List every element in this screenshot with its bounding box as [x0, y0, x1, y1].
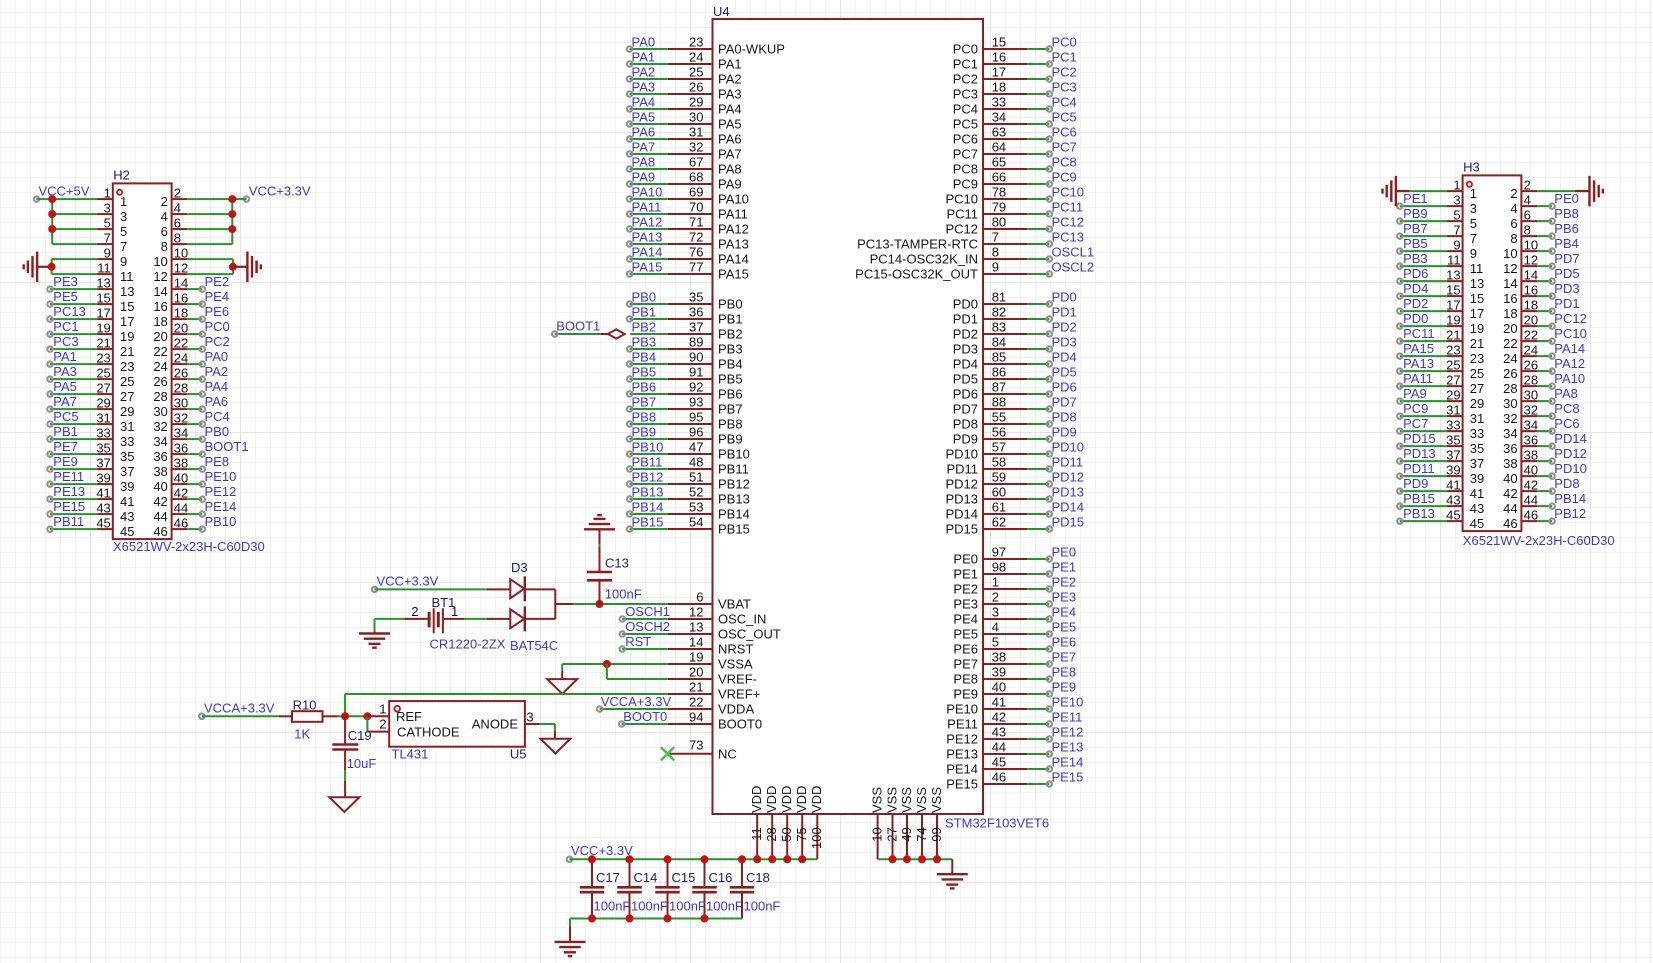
- svg-text:24: 24: [1503, 351, 1517, 366]
- svg-text:37: 37: [120, 464, 134, 479]
- svg-text:37: 37: [689, 319, 703, 334]
- svg-text:35: 35: [96, 440, 110, 455]
- svg-text:39: 39: [120, 479, 134, 494]
- svg-text:80: 80: [992, 214, 1006, 229]
- net flag VCC+3.3V at decoupling rail: [567, 843, 633, 862]
- svg-text:PB8: PB8: [632, 409, 657, 424]
- wire H3 pin 38 to net label PD12: [1537, 446, 1587, 464]
- svg-text:VREF-: VREF-: [718, 672, 757, 687]
- H3 pin 3 stub and numbers: [1447, 192, 1477, 216]
- svg-text:C16: C16: [709, 870, 733, 885]
- svg-text:PB13: PB13: [718, 492, 750, 507]
- wire H3 pin 36 to net label PD14: [1537, 431, 1587, 449]
- svg-text:39: 39: [992, 664, 1006, 679]
- svg-text:PD11: PD11: [1052, 454, 1084, 469]
- svg-text:PE7: PE7: [953, 657, 978, 672]
- svg-text:PE6: PE6: [1052, 634, 1077, 649]
- U4 pin 30 PA5, wire and net label PA5: [627, 109, 742, 131]
- svg-text:12: 12: [1524, 252, 1538, 267]
- U4 pin 67 PA8, wire and net label PA8: [627, 154, 742, 176]
- svg-text:21: 21: [1470, 336, 1484, 351]
- svg-text:68: 68: [689, 169, 703, 184]
- wire R10 to node: [338, 694, 367, 716]
- svg-text:PE2: PE2: [953, 582, 978, 597]
- U4 pin 8 PC14-OSC32K_IN, wire and net label OSCL1: [870, 244, 1095, 266]
- svg-text:28: 28: [174, 380, 188, 395]
- svg-text:34: 34: [992, 109, 1006, 124]
- svg-text:21: 21: [689, 679, 703, 694]
- svg-text:40: 40: [1503, 471, 1517, 486]
- svg-text:14: 14: [1524, 267, 1538, 282]
- H3 pin 35 stub and numbers: [1446, 432, 1484, 456]
- svg-text:PE14: PE14: [946, 762, 978, 777]
- wire H2 pin 31 to net label PC5: [47, 409, 97, 427]
- H2 pin 29 stub and numbers: [96, 395, 134, 419]
- wire H3 pin2 to ground: [1537, 190, 1589, 192]
- svg-text:96: 96: [689, 424, 703, 439]
- ground (earth) at BT1: [359, 634, 390, 648]
- svg-text:12: 12: [174, 260, 188, 275]
- svg-text:REF: REF: [396, 709, 422, 724]
- U4 pin 25 PA2, wire and net label PA2: [627, 64, 742, 86]
- svg-text:79: 79: [992, 199, 1006, 214]
- svg-text:17: 17: [1446, 297, 1460, 312]
- H2 pin 31 stub and numbers: [96, 410, 134, 434]
- U4 pin 12 OSC_IN, wire and net label OSCH1: [620, 604, 767, 627]
- svg-text:PB4: PB4: [718, 357, 743, 372]
- wire H3 pin 23 to net label PA15: [1397, 341, 1447, 359]
- H3 pin 32 stub and numbers: [1503, 402, 1538, 426]
- IC U5 TL431: [367, 701, 539, 761]
- svg-text:PB14: PB14: [632, 499, 664, 514]
- svg-text:PC0: PC0: [205, 319, 230, 334]
- wire H2 pin 45 to net label PB11: [47, 514, 97, 532]
- U4 pin 63 PC6, wire and net label PC6: [953, 124, 1077, 146]
- svg-text:VCC+5V: VCC+5V: [39, 183, 90, 198]
- svg-text:53: 53: [689, 499, 703, 514]
- U4 pin 17 PC2, wire and net label PC2: [953, 64, 1077, 86]
- svg-text:PC11: PC11: [1403, 326, 1435, 341]
- svg-text:PE15: PE15: [946, 777, 978, 792]
- svg-text:PA5: PA5: [632, 109, 656, 124]
- svg-text:37: 37: [1446, 447, 1460, 462]
- svg-text:PC1: PC1: [953, 57, 978, 72]
- svg-text:PE1: PE1: [1052, 559, 1077, 574]
- svg-text:PA11: PA11: [1403, 371, 1433, 386]
- svg-text:23: 23: [1446, 342, 1460, 357]
- H2 pin 25 stub and numbers: [96, 365, 134, 389]
- U4 pin 64 PC7, wire and net label PC7: [953, 139, 1077, 161]
- H3 pin 13 stub and numbers: [1446, 267, 1484, 291]
- H2 pin 4 stub and numbers: [161, 200, 188, 224]
- wire H2 pin 17 to net label PC13: [47, 304, 97, 322]
- svg-text:93: 93: [689, 394, 703, 409]
- svg-text:PE8: PE8: [205, 454, 230, 469]
- svg-text:PC10: PC10: [945, 192, 978, 207]
- svg-text:3: 3: [1453, 192, 1460, 207]
- H2 pin 46 stub and numbers: [153, 515, 188, 539]
- svg-text:4: 4: [992, 619, 999, 634]
- svg-text:PC6: PC6: [953, 132, 978, 147]
- resistor R10 1K: [279, 697, 338, 741]
- wire H3 pin 5 to net label PB9: [1397, 206, 1447, 224]
- svg-text:STM32F103VET6: STM32F103VET6: [945, 816, 1049, 831]
- svg-text:PE8: PE8: [953, 672, 978, 687]
- wire H2 pin 40 to net label PE10: [187, 469, 236, 487]
- wire H2 pin 32 to net label PC4: [187, 409, 229, 427]
- U4 pin 59 PD12, wire and net label PD12: [945, 469, 1084, 491]
- svg-text:PC9: PC9: [1052, 169, 1077, 184]
- U4 pin 71 PA12, wire and net label PA12: [627, 214, 749, 236]
- svg-text:PC10: PC10: [1554, 326, 1587, 341]
- wire H2 pin2 VCC+3.3V bus: [187, 199, 246, 244]
- svg-text:65: 65: [992, 154, 1006, 169]
- U4 pin 27 VSS (bottom): [884, 787, 899, 860]
- H2 pin 30 stub and numbers: [153, 395, 188, 419]
- svg-text:PD10: PD10: [1554, 461, 1587, 476]
- svg-text:R10: R10: [293, 697, 317, 712]
- svg-text:PE1: PE1: [1403, 191, 1428, 206]
- svg-text:9: 9: [992, 259, 999, 274]
- svg-text:U4: U4: [713, 4, 730, 19]
- H3 pin 15 stub and numbers: [1446, 282, 1484, 306]
- svg-text:PE4: PE4: [953, 612, 978, 627]
- svg-text:PE11: PE11: [1052, 709, 1083, 724]
- svg-text:21: 21: [120, 344, 134, 359]
- H2 pin 39 stub and numbers: [96, 470, 134, 494]
- wire H2 pin 36 to net label BOOT1: [187, 439, 248, 457]
- svg-text:36: 36: [174, 440, 188, 455]
- U4 pin 57 PD10, wire and net label PD10: [945, 439, 1084, 461]
- svg-text:20: 20: [174, 320, 188, 335]
- wire H2 pin1 VCC+5V bus: [37, 199, 98, 244]
- svg-text:PB11: PB11: [718, 462, 749, 477]
- svg-text:17: 17: [1470, 306, 1484, 321]
- svg-text:28: 28: [1524, 372, 1538, 387]
- svg-text:PA2: PA2: [205, 364, 229, 379]
- svg-text:PE9: PE9: [53, 454, 78, 469]
- svg-text:C13: C13: [605, 556, 629, 571]
- junction VBAT / C13: [596, 600, 604, 608]
- svg-text:21: 21: [1446, 327, 1460, 342]
- U4 pin 66 PC9, wire and net label PC9: [953, 169, 1077, 191]
- svg-text:36: 36: [153, 449, 167, 464]
- svg-text:42: 42: [174, 485, 188, 500]
- U4 pin 74 VSS (bottom): [914, 787, 929, 860]
- U4 pin 42 PE11, wire and net label PE11: [947, 709, 1082, 731]
- svg-text:10: 10: [869, 827, 884, 841]
- H2 pin 12 stub and numbers: [153, 260, 188, 284]
- svg-text:PA10: PA10: [718, 192, 749, 207]
- svg-text:7: 7: [120, 239, 127, 254]
- H3 pin 26 stub and numbers: [1503, 357, 1538, 381]
- svg-text:PD10: PD10: [945, 447, 978, 462]
- svg-text:OSCH2: OSCH2: [625, 619, 670, 634]
- wire VCC+3.3V to D3 anode: [375, 588, 511, 590]
- svg-text:PA7: PA7: [632, 139, 656, 154]
- svg-text:35: 35: [1470, 441, 1484, 456]
- svg-text:28: 28: [153, 389, 167, 404]
- H2 pin 18 stub and numbers: [153, 305, 188, 329]
- svg-text:PB12: PB12: [718, 477, 750, 492]
- wire H3 pin 44 to net label PB14: [1537, 491, 1586, 509]
- svg-text:VDD: VDD: [764, 786, 779, 813]
- junction R10/C19/VREF+: [341, 712, 349, 720]
- svg-text:9: 9: [1453, 237, 1460, 252]
- svg-text:PC13: PC13: [1052, 229, 1085, 244]
- H2 pin 27 stub and numbers: [96, 380, 134, 404]
- svg-text:PC4: PC4: [1052, 94, 1077, 109]
- svg-text:37: 37: [1470, 456, 1484, 471]
- svg-text:PE10: PE10: [1052, 694, 1084, 709]
- U4 pin 62 PD15, wire and net label PD15: [945, 514, 1084, 536]
- H3 pin 6 stub and numbers: [1510, 207, 1537, 231]
- U4 pin 36 PB1, wire and net label PB1: [627, 304, 743, 326]
- H2 pin 10 stub and numbers: [153, 245, 188, 269]
- svg-text:2: 2: [1510, 186, 1517, 201]
- svg-text:33: 33: [96, 425, 110, 440]
- svg-text:PD12: PD12: [1052, 469, 1085, 484]
- net flag VCCA+3.3V at R10: [199, 701, 275, 720]
- svg-text:PD14: PD14: [1554, 431, 1587, 446]
- wire H2 pin 29 to net label PA7: [47, 394, 97, 412]
- svg-text:94: 94: [689, 709, 703, 724]
- svg-text:10uF: 10uF: [347, 756, 377, 771]
- svg-text:2: 2: [411, 604, 418, 619]
- wire H3 pin 35 to net label PD15: [1397, 431, 1447, 449]
- wire U5 anode to ground: [540, 724, 555, 739]
- svg-text:PE15: PE15: [1052, 769, 1084, 784]
- svg-text:44: 44: [153, 509, 167, 524]
- svg-text:1K: 1K: [294, 726, 310, 741]
- svg-text:24: 24: [689, 49, 703, 64]
- svg-text:35: 35: [1446, 432, 1460, 447]
- svg-text:7: 7: [1470, 231, 1477, 246]
- svg-text:PA3: PA3: [718, 87, 742, 102]
- wire H3 pin1 to ground: [1396, 190, 1447, 192]
- svg-text:29: 29: [1446, 387, 1460, 402]
- svg-text:29: 29: [120, 404, 134, 419]
- svg-text:46: 46: [1524, 507, 1538, 522]
- U4 pin 16 PC1, wire and net label PC1: [953, 49, 1077, 71]
- U4 pin 4 PE5, wire and net label PE5: [953, 619, 1076, 641]
- svg-text:16: 16: [1503, 291, 1517, 306]
- svg-text:31: 31: [96, 410, 110, 425]
- U4 pin 94 BOOT0, wire and net label BOOT0: [619, 709, 762, 732]
- svg-text:PA5: PA5: [718, 117, 742, 132]
- svg-text:39: 39: [96, 470, 110, 485]
- svg-text:PB6: PB6: [1554, 221, 1579, 236]
- svg-text:PD9: PD9: [1052, 424, 1077, 439]
- U4 pin 41 PE10, wire and net label PE10: [946, 694, 1083, 716]
- svg-text:38: 38: [174, 455, 188, 470]
- U4 pin 77 PA15, wire and net label PA15: [627, 259, 749, 281]
- svg-text:18: 18: [153, 314, 167, 329]
- wire H3 pin 29 to net label PA9: [1397, 386, 1447, 404]
- junction VSSA / VREF-: [603, 660, 611, 679]
- H3 pin 12 stub and numbers: [1503, 252, 1538, 276]
- svg-text:PD13: PD13: [945, 492, 978, 507]
- wire H3 pin 46 to net label PB12: [1537, 506, 1586, 524]
- svg-text:PE14: PE14: [205, 499, 237, 514]
- svg-text:CATHODE: CATHODE: [397, 724, 460, 739]
- svg-text:47: 47: [689, 439, 703, 454]
- IC U4 STM32F103VET6 body: [713, 4, 984, 814]
- svg-text:PD13: PD13: [1403, 446, 1436, 461]
- svg-text:27: 27: [884, 827, 899, 841]
- svg-text:BAT54C: BAT54C: [510, 638, 558, 653]
- wire H2 pin 20 to net label PC0: [187, 319, 229, 337]
- H3 pin 38 stub and numbers: [1503, 447, 1538, 471]
- wire H3 pin 19 to net label PD0: [1397, 311, 1447, 329]
- wire VSS rail: [878, 859, 953, 874]
- svg-text:43: 43: [992, 724, 1006, 739]
- svg-text:PB9: PB9: [1403, 206, 1428, 221]
- net flag VCC+3.3V at H2 pin 2: [244, 183, 311, 202]
- H3 pin 1 stub and numbers: [1447, 177, 1477, 201]
- svg-text:VSS: VSS: [869, 787, 884, 813]
- svg-text:7: 7: [992, 229, 999, 244]
- svg-text:PD3: PD3: [1052, 334, 1077, 349]
- H3 pin 24 stub and numbers: [1503, 342, 1538, 366]
- svg-text:13: 13: [1470, 276, 1484, 291]
- H3 pin 44 stub and numbers: [1503, 492, 1538, 516]
- svg-text:41: 41: [1446, 477, 1460, 492]
- wire H3 pin 24 to net label PA14: [1537, 341, 1585, 359]
- U4 pin 3 PE4, wire and net label PE4: [953, 604, 1076, 626]
- U4 pin 11 VDD (bottom): [749, 786, 764, 860]
- H3 pin 22 stub and numbers: [1503, 327, 1538, 351]
- U4 pin 95 PB8, wire and net label PB8: [627, 409, 743, 431]
- U4 pin 28 VDD (bottom): [764, 786, 779, 860]
- svg-text:PA9: PA9: [1403, 386, 1427, 401]
- U4 pin 73 NC with no-connect cross: [661, 737, 737, 761]
- svg-text:40: 40: [153, 479, 167, 494]
- svg-text:87: 87: [992, 379, 1006, 394]
- svg-text:PC3: PC3: [953, 87, 978, 102]
- U4 value STM32F103VET6: [945, 816, 1049, 831]
- svg-text:89: 89: [689, 334, 703, 349]
- U4 pin 13 OSC_OUT, wire and net label OSCH2: [620, 619, 781, 642]
- svg-text:PA13: PA13: [1403, 356, 1434, 371]
- svg-text:64: 64: [992, 139, 1006, 154]
- svg-text:PC4: PC4: [953, 102, 978, 117]
- svg-text:PD2: PD2: [1403, 296, 1428, 311]
- wire ground rail under capacitors: [570, 919, 742, 942]
- wire H2 pin 21 to net label PC3: [47, 334, 97, 352]
- svg-text:PB10: PB10: [632, 439, 664, 454]
- svg-text:73: 73: [689, 737, 703, 752]
- U4 pin 89 PB3, wire and net label PB3: [627, 334, 743, 356]
- svg-text:19: 19: [120, 329, 134, 344]
- svg-text:12: 12: [689, 604, 703, 619]
- svg-text:37: 37: [96, 455, 110, 470]
- svg-text:19: 19: [1470, 321, 1484, 336]
- svg-text:34: 34: [174, 425, 188, 440]
- U4 pin 6 VBAT: [668, 589, 751, 611]
- svg-text:TL431: TL431: [392, 747, 429, 762]
- wire H3 pin 39 to net label PD11: [1397, 461, 1447, 479]
- svg-text:100: 100: [809, 827, 824, 849]
- svg-text:PB6: PB6: [632, 379, 657, 394]
- svg-text:PB7: PB7: [718, 402, 743, 417]
- svg-text:PB11: PB11: [632, 454, 663, 469]
- svg-text:25: 25: [120, 374, 134, 389]
- svg-text:95: 95: [689, 409, 703, 424]
- svg-text:22: 22: [1503, 336, 1517, 351]
- connector H3 X6521WV-2x23H-C60D30 body: [1463, 160, 1615, 549]
- U4 pin 24 PA1, wire and net label PA1: [627, 49, 742, 71]
- svg-text:PC3: PC3: [53, 334, 78, 349]
- wire H2 pin 22 to net label PC2: [187, 334, 229, 352]
- svg-text:7: 7: [104, 230, 111, 245]
- svg-text:25: 25: [689, 64, 703, 79]
- junctions on capacitor ground rail: [588, 915, 709, 923]
- svg-text:27: 27: [1470, 381, 1484, 396]
- H3 pin 7 stub and numbers: [1447, 222, 1477, 246]
- svg-text:PB3: PB3: [718, 342, 743, 357]
- svg-text:PA10: PA10: [1554, 371, 1585, 386]
- svg-text:PD2: PD2: [953, 327, 978, 342]
- svg-text:48: 48: [689, 454, 703, 469]
- wire H2 pin 25 to net label PA3: [47, 364, 97, 382]
- battery BT1 CR1220-2ZX: [405, 595, 506, 652]
- svg-text:PD5: PD5: [1554, 266, 1579, 281]
- svg-text:PB14: PB14: [1554, 491, 1586, 506]
- H2 pin 26 stub and numbers: [153, 365, 188, 389]
- svg-text:88: 88: [992, 394, 1006, 409]
- svg-text:3: 3: [1470, 201, 1477, 216]
- svg-text:PE10: PE10: [946, 702, 978, 717]
- svg-text:15: 15: [992, 34, 1006, 49]
- svg-text:20: 20: [1503, 321, 1517, 336]
- H2 pin 15 stub and numbers: [96, 290, 134, 314]
- wire BT1 pin1 to D3 lower anode: [464, 618, 510, 620]
- svg-text:5: 5: [1453, 207, 1460, 222]
- svg-text:PD6: PD6: [1403, 266, 1428, 281]
- svg-text:43: 43: [1470, 501, 1484, 516]
- svg-text:44: 44: [1524, 492, 1538, 507]
- svg-text:PA6: PA6: [632, 124, 656, 139]
- H3 pin 30 stub and numbers: [1503, 387, 1538, 411]
- svg-text:45: 45: [1446, 507, 1460, 522]
- svg-text:27: 27: [1446, 372, 1460, 387]
- svg-text:PA15: PA15: [1403, 341, 1434, 356]
- U4 pin 80 PC12, wire and net label PC12: [945, 214, 1084, 236]
- svg-text:OSCL1: OSCL1: [1052, 244, 1095, 259]
- H2 pin 33 stub and numbers: [96, 425, 134, 449]
- svg-text:17: 17: [992, 64, 1006, 79]
- svg-text:PD3: PD3: [953, 342, 978, 357]
- wire H2 pin 34 to net label PB0: [187, 424, 229, 442]
- svg-text:PD11: PD11: [1403, 461, 1435, 476]
- svg-text:54: 54: [689, 514, 703, 529]
- U4 pin 60 PD13, wire and net label PD13: [945, 484, 1084, 506]
- svg-text:30: 30: [153, 404, 167, 419]
- svg-text:100nF: 100nF: [744, 899, 781, 914]
- svg-text:24: 24: [174, 350, 188, 365]
- svg-text:100nF: 100nF: [594, 899, 631, 914]
- svg-text:38: 38: [1524, 447, 1538, 462]
- H2 pin 5 stub and numbers: [97, 215, 127, 239]
- svg-text:4: 4: [1524, 192, 1531, 207]
- svg-text:PC4: PC4: [205, 409, 230, 424]
- svg-text:5: 5: [992, 634, 999, 649]
- svg-text:23: 23: [120, 359, 134, 374]
- svg-text:PA8: PA8: [632, 154, 656, 169]
- ground (earth, inverted) above C13: [584, 515, 615, 572]
- wire H3 pin 22 to net label PC10: [1537, 326, 1587, 344]
